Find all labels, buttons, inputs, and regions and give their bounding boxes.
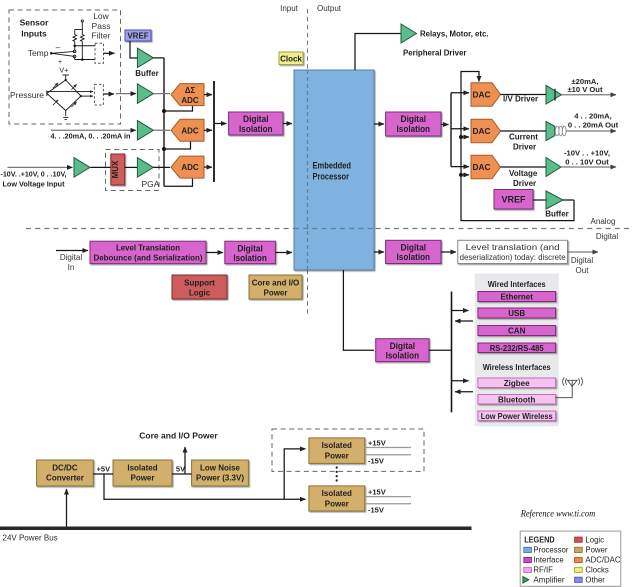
svg-text:DC/DC: DC/DC (52, 463, 78, 472)
svg-text:Wireless Interfaces: Wireless Interfaces (483, 363, 552, 372)
svg-text:Level translation (and: Level translation (and (466, 243, 560, 252)
svg-text:DAC: DAC (473, 126, 491, 136)
svg-text:Amplifier: Amplifier (533, 576, 564, 585)
svg-text:Other: Other (585, 575, 605, 584)
svg-text:Power: Power (585, 546, 608, 555)
svg-text:Isolated: Isolated (322, 441, 352, 450)
svg-text:V+: V+ (59, 66, 69, 75)
svg-text:Buffer: Buffer (545, 210, 569, 219)
svg-text:-15V: -15V (368, 505, 384, 514)
svg-text:ADC/DAC: ADC/DAC (585, 556, 620, 565)
svg-text:Low Noise: Low Noise (200, 463, 241, 472)
svg-text:5V: 5V (176, 464, 185, 473)
svg-text:Low: Low (93, 11, 109, 21)
svg-text:Digital: Digital (237, 243, 263, 253)
svg-text:DAC: DAC (473, 90, 491, 100)
svg-text:Clocks: Clocks (585, 566, 608, 575)
svg-text:0 . . 10V Out: 0 . . 10V Out (565, 157, 609, 166)
svg-text:VREF: VREF (127, 32, 148, 41)
svg-text:Debounce (and Serialization): Debounce (and Serialization) (94, 254, 203, 263)
svg-text:ADC: ADC (181, 126, 199, 135)
svg-text:USB: USB (508, 309, 525, 318)
svg-text:Clock: Clock (280, 54, 302, 63)
svg-text:ΔΣ: ΔΣ (185, 86, 196, 95)
svg-text:ADC: ADC (181, 163, 199, 172)
svg-text:Power (3.3V): Power (3.3V) (196, 474, 244, 483)
svg-text:Out: Out (576, 266, 590, 275)
svg-text:–: – (56, 43, 61, 52)
svg-text:Relays, Motor, etc.: Relays, Motor, etc. (420, 30, 489, 39)
svg-text:Pressure: Pressure (10, 90, 44, 100)
svg-text:RS-232/RS-485: RS-232/RS-485 (490, 344, 545, 353)
svg-text:-10V. .+10V, 0 . .10V,: -10V. .+10V, 0 . .10V, (1, 170, 67, 179)
svg-text:DAC: DAC (473, 162, 491, 172)
svg-text:Low Voltage Input: Low Voltage Input (3, 180, 65, 189)
svg-text:Interface: Interface (533, 556, 563, 565)
svg-text:Buffer: Buffer (135, 69, 159, 78)
svg-text:Current: Current (509, 133, 538, 142)
svg-text:Driver: Driver (513, 179, 536, 188)
svg-text:Processor: Processor (313, 172, 350, 182)
svg-text:Isolated: Isolated (127, 463, 157, 472)
svg-text:Bluetooth: Bluetooth (498, 395, 535, 404)
svg-text:ADC: ADC (181, 96, 199, 105)
svg-text:4 . . 20mA,: 4 . . 20mA, (574, 112, 612, 121)
svg-text:Power: Power (263, 288, 287, 297)
svg-text:Wired Interfaces: Wired Interfaces (488, 280, 547, 289)
svg-text:PGA: PGA (142, 179, 160, 189)
svg-text:Isolation: Isolation (386, 351, 420, 361)
svg-text:+5V: +5V (97, 464, 111, 473)
svg-text:Peripheral Driver: Peripheral Driver (403, 49, 467, 58)
svg-text:Power: Power (130, 474, 154, 483)
svg-text:In: In (68, 263, 75, 272)
svg-text:Support: Support (184, 278, 215, 287)
svg-text:4. . .20mA, 0. . .20mA in: 4. . .20mA, 0. . .20mA in (51, 132, 131, 141)
svg-text:CAN: CAN (508, 327, 526, 336)
svg-text:Logic: Logic (189, 288, 211, 297)
svg-text:Pass: Pass (92, 21, 111, 31)
svg-text:0 . . 20mA Out: 0 . . 20mA Out (568, 120, 619, 129)
svg-text:Embedded: Embedded (313, 161, 352, 171)
svg-text:Logic: Logic (585, 535, 604, 544)
svg-text:Filter: Filter (92, 31, 111, 41)
svg-text:Isolation: Isolation (397, 252, 431, 262)
svg-text:Digital: Digital (401, 242, 427, 252)
svg-text:Isolation: Isolation (239, 124, 273, 134)
svg-text:Converter: Converter (46, 474, 84, 483)
svg-text:+15V: +15V (368, 439, 386, 448)
svg-text:Digital: Digital (243, 114, 269, 124)
svg-text:Isolated: Isolated (322, 489, 352, 498)
svg-text:Level Translation: Level Translation (116, 244, 180, 253)
svg-text:Digital: Digital (60, 253, 82, 262)
svg-text:Digital: Digital (401, 114, 427, 124)
svg-text:Isolation: Isolation (397, 124, 431, 134)
svg-text:Driver: Driver (513, 143, 536, 152)
svg-text:Core and I/O Power: Core and I/O Power (139, 430, 218, 440)
svg-text:Zigbee: Zigbee (504, 379, 530, 388)
svg-text:-10V . . +10V,: -10V . . +10V, (564, 149, 610, 158)
svg-text:+15V: +15V (368, 487, 386, 496)
svg-text:Isolation: Isolation (233, 253, 267, 263)
svg-text:VREF: VREF (501, 195, 526, 205)
svg-text:Voltage: Voltage (509, 169, 538, 178)
svg-text:Reference www.ti.com: Reference www.ti.com (520, 509, 596, 519)
svg-text:Inputs: Inputs (21, 29, 47, 39)
svg-text:Input: Input (280, 4, 299, 13)
svg-text:Digital: Digital (571, 256, 593, 265)
svg-text:Power: Power (325, 499, 349, 508)
svg-text:Analog: Analog (591, 217, 616, 226)
svg-text:Processor: Processor (533, 546, 569, 555)
svg-text:deserialization) today: discre: deserialization) today: discrete (460, 253, 567, 262)
svg-text:24V Power Bus: 24V Power Bus (3, 534, 58, 543)
svg-text:Power: Power (325, 451, 349, 460)
svg-text:Sensor: Sensor (20, 18, 50, 28)
svg-text:Low Power Wireless: Low Power Wireless (481, 412, 554, 421)
svg-text:-15V: -15V (368, 456, 384, 465)
svg-text:MUX: MUX (111, 160, 120, 178)
svg-text:Ethernet: Ethernet (500, 293, 533, 302)
svg-text:Digital: Digital (596, 232, 618, 241)
svg-text:±10 V Out: ±10 V Out (568, 85, 603, 94)
svg-text:I/V Driver: I/V Driver (503, 95, 538, 104)
svg-text:LEGEND: LEGEND (524, 536, 555, 545)
svg-text:Core and I/O: Core and I/O (252, 278, 300, 287)
svg-text:Temp: Temp (28, 48, 49, 58)
svg-text:Digital: Digital (390, 341, 416, 351)
svg-text:RF/IF: RF/IF (533, 566, 553, 575)
svg-text:Output: Output (317, 4, 342, 13)
